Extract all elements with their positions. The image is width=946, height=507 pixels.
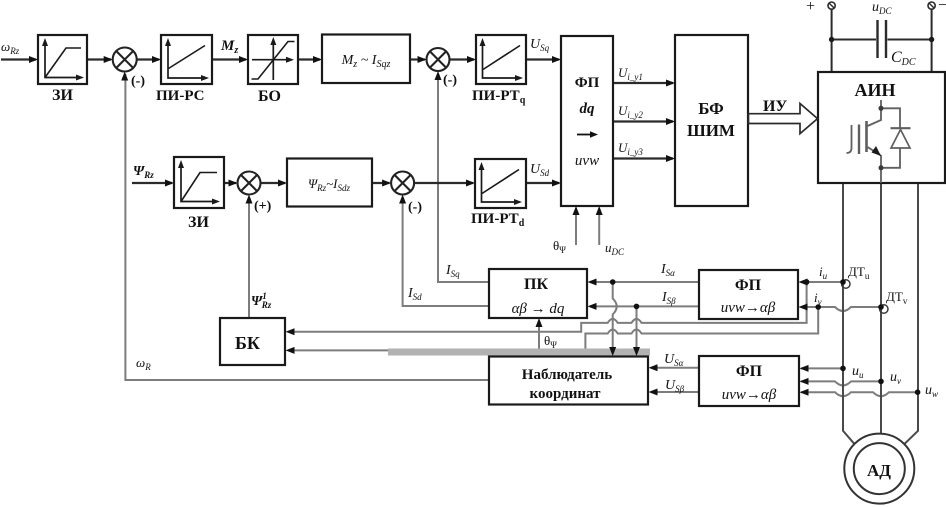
svg-text:координат: координат: [530, 386, 602, 402]
svg-text:(-): (-): [443, 73, 457, 88]
wire ZI1 to sum1: [87, 58, 111, 60]
arrow up into sum2 bottom: [435, 71, 442, 80]
SECTION: blocks: [38, 35, 945, 407]
node dot i_v tap: [815, 304, 821, 310]
svg-text:ПИ-РС: ПИ-РС: [156, 88, 205, 104]
IGBT emitter with lead: [868, 147, 882, 168]
arrow up into sum1 bottom: [121, 72, 128, 81]
capacitor C_DC plates: [876, 20, 878, 58]
wire phase a vertical: [843, 183, 855, 444]
wire FP1 out1: [613, 82, 673, 84]
arrows into PK right: [588, 279, 597, 286]
svg-text:ЗИ: ЗИ: [52, 87, 73, 104]
SECTION: arrowheads: [29, 56, 809, 396]
wire u_DC stub into FP1: [598, 209, 600, 245]
wire DC bus to capacitor: [832, 39, 876, 41]
svg-text:uvw: uvw: [575, 153, 599, 169]
wire phase c vertical: [904, 183, 918, 444]
node dot u_v tap: [878, 379, 884, 385]
wire ZI2 to sum+: [224, 182, 236, 184]
wire U_Sbeta FP3 to observer: [651, 391, 699, 393]
wire u_u tap to FP3: [801, 367, 843, 369]
arrow into sum2: [418, 56, 427, 63]
wire FP1 out2: [613, 120, 673, 122]
svg-text:АД: АД: [867, 461, 891, 480]
terminal circle plus: [828, 2, 835, 9]
wire DC plus terminal down: [831, 10, 833, 73]
wire Psi1Rz riser BK to sum+: [248, 197, 250, 318]
block ZI2 flux ramp: [174, 157, 224, 208]
arrow up uDC stub into FP1: [596, 206, 603, 215]
svg-text:ИУ: ИУ: [763, 98, 787, 115]
wire sum1 to PI-RC: [137, 58, 159, 60]
SECTION: phase lines: [843, 183, 918, 444]
motor AD outer circle: [844, 434, 914, 504]
diode triangle: [891, 130, 910, 149]
block ZI1 ramp generator: [38, 35, 87, 84]
IGBT collector lead: [868, 100, 882, 126]
summing junction sum+ flux: [238, 172, 261, 195]
SECTION: axis arrowheads inside blocks: [42, 37, 523, 205]
svg-text:αβ → dq: αβ → dq: [512, 301, 565, 317]
node dot i_v sensor junction: [878, 304, 884, 310]
wire input Psi_Rz: [132, 182, 172, 184]
SECTION: DC link: [828, 2, 935, 72]
svg-text:ПИ-РТd: ПИ-РТd: [471, 211, 525, 229]
current sensor DTu: [842, 280, 850, 288]
arrow into ZI1: [29, 56, 38, 63]
wire vertical I_Sbeta tap to observer: [636, 306, 638, 353]
arrow up into sum3 bottom: [399, 195, 406, 204]
svg-text:(-): (-): [131, 74, 145, 89]
AIN bottom lead: [880, 168, 882, 183]
node dot IGBT bottom: [879, 165, 884, 170]
node dot u_w tap: [915, 389, 921, 395]
node dot i_u tap: [804, 279, 810, 285]
arrow into FP1 U_Sd: [552, 180, 561, 187]
node dot u_u tap: [840, 366, 846, 372]
PI-RC axes and line: [168, 41, 205, 78]
wire i_v long route to BK: [288, 307, 818, 350]
wire sum3 to PI-RTd: [414, 182, 473, 184]
wire PI-RTd to FP1 (U_Sd): [526, 182, 559, 184]
SECTION: IGBT and diode inside AIN: [847, 100, 911, 183]
svg-text:uvw→αβ: uvw→αβ: [722, 387, 777, 403]
node dot I_Sbeta tap: [634, 304, 640, 310]
summing junction sum1 speed: [113, 48, 137, 72]
wire u_w tap to FP3 with two hops: [801, 392, 918, 396]
arrow up theta into PK bottom: [536, 318, 543, 327]
wire PI-RTq to FP1 (U_Sq): [526, 58, 559, 60]
arrows into observer right: [649, 364, 658, 371]
block PsiRz~Isdz converter: [287, 159, 372, 207]
SECTION: dark chain wires row1: [1, 60, 673, 184]
svg-text:+: +: [806, 0, 815, 15]
wire sum2 to PI-RTq: [450, 58, 475, 60]
wire FP1 out3: [613, 157, 673, 159]
svg-text:БФ: БФ: [698, 99, 724, 118]
terminal circle minus: [928, 2, 935, 9]
block PI-RC speed regulator: [161, 35, 212, 84]
block PK coordinate converter: [489, 269, 587, 318]
IGBT gate bar: [858, 125, 860, 155]
wire I_Salpha FP2 to PK: [590, 281, 699, 283]
summing junction sum3 flux current: [391, 172, 414, 195]
svg-text:ФП: ФП: [736, 363, 763, 380]
node dot DC left: [829, 37, 834, 42]
node dot DC right: [929, 37, 934, 42]
node dot i_u sensor junction: [840, 279, 846, 285]
svg-text:(-): (-): [408, 200, 422, 215]
arrows into FP2 right: [799, 279, 808, 286]
arrows into BF SHIM: [666, 80, 675, 87]
svg-text:БК: БК: [235, 333, 260, 353]
svg-text:Наблюдатель: Наблюдатель: [522, 367, 612, 383]
svg-text:ПК: ПК: [524, 276, 548, 293]
block BO limiter: [248, 35, 298, 84]
arrow into PI-RTd: [466, 180, 475, 187]
block Mz~Isqz converter: [322, 35, 410, 84]
IGBT emitter arrow: [872, 146, 882, 156]
wire PI-RC to BO (M_z): [212, 58, 246, 60]
block FP2 current uvw-ab: [699, 270, 798, 319]
arrow into sum3: [382, 180, 391, 187]
svg-text:dq: dq: [580, 101, 596, 117]
IU hollow arrow: [749, 104, 818, 134]
wire I_Sq from PK to sum2 riser: [438, 74, 489, 283]
wire I_Sd from PK to sum3 riser: [403, 198, 489, 307]
PI-RTq axes and line: [483, 41, 520, 78]
block observer Nablyudatel koordinat: [489, 357, 648, 405]
wire input omega_Rz: [1, 58, 36, 60]
node dot I_Salpha tap: [610, 279, 616, 285]
arrow into BO: [239, 56, 248, 63]
arrow into PI-RTq: [467, 56, 476, 63]
block FP1 dq-uvw: [561, 36, 613, 206]
svg-text:БО: БО: [258, 88, 281, 105]
arrow up into sum+ bottom: [246, 195, 253, 204]
wire DC minus terminal down: [931, 10, 933, 73]
wire Mz~Isqz to sum2: [410, 58, 425, 60]
block BK correction: [220, 318, 285, 365]
wire BO to Mz~Isqz: [298, 58, 320, 60]
wire theta_psi riser observer to PK: [538, 322, 540, 357]
svg-text:ЗИ: ЗИ: [188, 214, 209, 231]
wire phase b vertical: [880, 183, 882, 433]
motor AD inner circle: [854, 443, 905, 494]
wire i_v sensor to FP2 with hop over phase a: [801, 307, 881, 311]
arrow into ZI2: [165, 180, 174, 187]
ZI2 axes and ramp curve: [181, 163, 216, 202]
summing junction sum2 torque current: [427, 48, 450, 71]
svg-text:ШИМ: ШИМ: [687, 121, 735, 140]
IGBT gate J lead: [847, 125, 852, 153]
arrow into PI-RC: [152, 56, 161, 63]
svg-text:АИН: АИН: [854, 80, 895, 100]
svg-text:uvw→αβ: uvw→αβ: [721, 300, 776, 316]
diode branch wiring: [881, 108, 900, 168]
block PI-RTd current regulator: [475, 159, 526, 208]
wire sum+ to Psi block: [261, 182, 286, 184]
ZI1 axes and ramp curve: [45, 41, 80, 78]
wire omega_R feedback horizontal+riser: [125, 74, 489, 380]
arrows into FP3 right: [800, 365, 809, 372]
wire vertical I_Salpha tap to observer with hop: [613, 282, 617, 353]
SECTION: block inner characteristics: [45, 40, 520, 202]
arrow into sum+: [229, 180, 238, 187]
SECTION: gray routing wires: [125, 74, 917, 397]
svg-text:−: −: [938, 0, 946, 14]
arrow into Mz~Isqz: [313, 56, 322, 63]
wire i_u sensor to FP2: [801, 281, 843, 283]
svg-text:ПИ-РТq: ПИ-РТq: [472, 88, 526, 106]
svg-text:ФП: ФП: [575, 75, 600, 91]
thick gray highlighted bar: [388, 349, 650, 356]
arrows into BK right: [286, 328, 295, 335]
wire I_Sbeta FP2 to PK: [590, 305, 699, 307]
svg-text:ФП: ФП: [735, 277, 762, 294]
BO axes and saturation curve: [252, 40, 290, 80]
svg-text:(+): (+): [254, 199, 272, 214]
diode cathode bar: [891, 127, 911, 129]
arrows down into observer top: [609, 347, 616, 356]
wire i_u long route to BK: [288, 282, 807, 332]
arrow up theta stub into FP1: [573, 206, 580, 215]
SECTION: summation circles: [113, 48, 450, 195]
block FP3 voltage uvw-ab: [699, 356, 799, 406]
wire u_v tap to FP3 with hop: [801, 381, 881, 385]
current sensor DTv: [880, 305, 888, 313]
arrow into Psi block: [278, 180, 287, 187]
wire theta_psi stub into FP1: [575, 209, 577, 245]
arrow into FP1 U_Sq: [552, 56, 561, 63]
block BF SHIM: [675, 35, 748, 206]
IGBT body bar: [865, 121, 868, 152]
node dot IGBT top: [879, 106, 884, 111]
arrow into sum1: [104, 56, 113, 63]
SECTION: junction dots: [610, 279, 920, 395]
block AIN inverter: [818, 72, 945, 183]
wire Psi block to sum3: [372, 182, 390, 184]
PI-RTd axes and line: [482, 165, 519, 202]
block PI-RTq current regulator: [476, 35, 526, 84]
wire U_Salpha FP3 to observer: [651, 367, 699, 369]
